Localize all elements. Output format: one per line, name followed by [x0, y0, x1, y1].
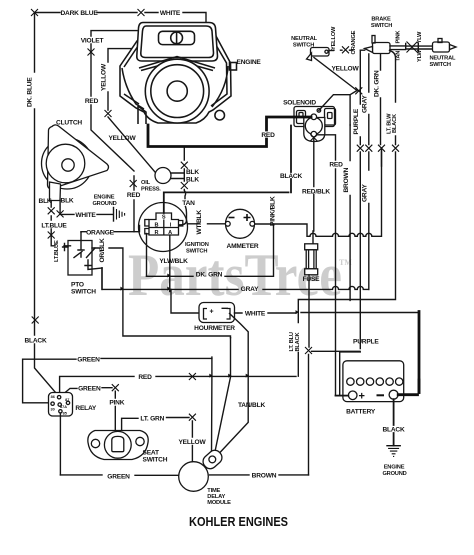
wire hourmeter diag to tan/blk column	[215, 314, 248, 458]
svg-text:RED: RED	[329, 162, 343, 169]
engine blower circle outer	[145, 59, 209, 123]
svg-text:SWITCH: SWITCH	[71, 289, 96, 296]
wire solenoid bottom to red vertical	[317, 135, 336, 396]
wire cross link fuse-red at 351.5	[312, 350, 361, 352]
node X solenoid bottom	[310, 134, 317, 141]
node X red diag	[130, 180, 137, 187]
node X yellow diag	[355, 87, 362, 94]
svg-text:GRAY: GRAY	[362, 184, 369, 202]
svg-text:ENGINE: ENGINE	[384, 464, 405, 470]
svg-text:TIME: TIME	[207, 488, 220, 494]
engine fuel tank outer	[137, 23, 218, 62]
svg-text:GREEN: GREEN	[107, 473, 130, 480]
svg-text:YELLOW: YELLOW	[108, 135, 136, 142]
svg-text:SEAT: SEAT	[143, 450, 159, 457]
svg-text:LT.BLUE: LT.BLUE	[41, 223, 67, 230]
svg-text:WHITE: WHITE	[245, 311, 266, 318]
wire neutral switch to solenoid and brown (yellow diag)	[314, 58, 357, 126]
svg-text:BROWN: BROWN	[252, 473, 277, 480]
engine left wing	[122, 68, 144, 109]
engine blower circle mid	[151, 65, 204, 118]
svg-text:PINK: PINK	[109, 400, 124, 407]
wire fuse bottom down to brown bus	[308, 275, 311, 475]
engine body outer	[120, 35, 231, 123]
ammeter	[225, 209, 254, 238]
engine ground symbol (right)	[386, 446, 401, 457]
wire A down continues (to gray bus)	[169, 276, 171, 291]
svg-text:RED: RED	[127, 192, 141, 199]
node X tan lower	[181, 182, 188, 189]
svg-text:BATTERY: BATTERY	[346, 409, 376, 416]
wire pto bottom to gray bus	[101, 268, 103, 289]
svg-text:KOHLER ENGINES: KOHLER ENGINES	[189, 514, 288, 529]
seat switch	[88, 431, 148, 460]
relay	[49, 393, 73, 417]
wire green bus (upper)	[23, 358, 212, 402]
svg-text:ENGINE: ENGINE	[94, 195, 115, 201]
neutral switch left	[307, 48, 334, 61]
wire brown vertical	[349, 125, 351, 300]
svg-text:AMMETER: AMMETER	[227, 243, 259, 250]
node X lt grn / yellow	[189, 414, 196, 421]
svg-text:SWITCH: SWITCH	[186, 249, 207, 255]
wire pink/blk + bus to brake switch (dk grn)	[255, 148, 382, 236]
svg-text:SWITCH: SWITCH	[430, 62, 451, 68]
svg-text:SWITCH: SWITCH	[143, 457, 168, 464]
ignition key block	[149, 213, 179, 235]
svg-text:85: 85	[63, 412, 67, 416]
connector pink/tan to ylw/ylw	[406, 42, 433, 53]
svg-text:RED: RED	[85, 98, 99, 105]
junction white/ltblu leg	[296, 310, 299, 314]
node X fuse line	[305, 347, 312, 354]
svg-text:PINK/BLK: PINK/BLK	[270, 196, 277, 226]
engine blower hub	[167, 81, 187, 101]
svg-text:GROUND: GROUND	[382, 471, 406, 477]
engine small nub circle	[215, 110, 225, 120]
engine ground symbol (left, sideways)	[114, 208, 125, 222]
wire dk grn (to right)	[147, 224, 274, 276]
svg-text:RED: RED	[261, 132, 275, 139]
svg-text:ENGINE: ENGINE	[237, 59, 262, 66]
svg-text:PURPLE: PURPLE	[353, 338, 379, 345]
svg-text:+: +	[359, 391, 365, 403]
svg-text:BRAKE: BRAKE	[371, 17, 391, 23]
battery	[343, 361, 404, 403]
junction marks red wire	[209, 374, 212, 378]
svg-text:DK. GRN: DK. GRN	[373, 70, 380, 97]
svg-text:87: 87	[65, 398, 69, 402]
svg-text:DK. BLUE: DK. BLUE	[27, 77, 34, 107]
fuse	[305, 244, 318, 275]
svg-text:IGNITION: IGNITION	[185, 242, 209, 248]
svg-text:86: 86	[51, 395, 55, 399]
engine fuel tank inner	[141, 26, 214, 58]
junction mark A/dkgrn	[167, 274, 170, 278]
svg-text:FUSE: FUSE	[303, 276, 321, 283]
svg-text:DK. GRN: DK. GRN	[196, 272, 223, 279]
svg-text:GREEN: GREEN	[78, 385, 101, 392]
wire green 2 (relay to pink)	[61, 388, 112, 396]
junction marks gray bus	[120, 287, 123, 291]
node X blk left	[48, 207, 55, 214]
svg-text:WHITE: WHITE	[75, 212, 96, 219]
wire red/blk solenoid to fuse	[312, 137, 315, 244]
node X red wire	[189, 373, 196, 380]
svg-text:LT. BLU: LT. BLU	[289, 332, 295, 351]
svg-text:CLUTCH: CLUTCH	[56, 120, 82, 127]
engine fuel cap plate	[159, 31, 195, 44]
svg-text:LT.BLUE: LT.BLUE	[54, 240, 60, 262]
engine body inner lines	[124, 40, 227, 106]
svg-text:LT. GRN: LT. GRN	[140, 416, 164, 423]
ignition switch circle	[139, 203, 188, 252]
time delay module	[179, 448, 225, 492]
node X yellow	[105, 110, 112, 117]
clutch face circle	[46, 144, 85, 183]
svg-text:DARK BLUE: DARK BLUE	[60, 10, 98, 17]
svg-text:GREEN: GREEN	[77, 356, 100, 363]
wire brown (time delay to fuse leg)	[210, 474, 309, 476]
svg-text:BROWN: BROWN	[343, 167, 350, 192]
engine fuel cap circle	[171, 32, 183, 44]
svg-text:PURPLE: PURPLE	[353, 108, 360, 134]
wire pink down to seat switch	[114, 391, 116, 436]
svg-text:PRESS.: PRESS.	[141, 187, 161, 193]
svg-text:BLACK: BLACK	[392, 113, 398, 133]
wire orange (PTO to ignition B)	[81, 226, 140, 233]
clutch plate triangle	[48, 125, 109, 189]
wire lt grn to seat switch	[122, 418, 189, 437]
svg-text:YELLOW: YELLOW	[178, 439, 206, 446]
svg-text:TAN/BLK: TAN/BLK	[238, 402, 265, 409]
wire tan/blk middle column	[214, 338, 231, 457]
svg-text:R: R	[154, 230, 158, 236]
wire white (hourmeter to battery minus leg)	[235, 312, 418, 315]
svg-text:+: +	[210, 309, 214, 316]
svg-text:S: S	[162, 215, 166, 221]
svg-text:YELLOW: YELLOW	[331, 66, 359, 73]
wire yellow down to time delay	[191, 421, 193, 462]
oil pressure switch	[155, 168, 171, 184]
node X left bus	[32, 317, 39, 324]
clutch pulley circle	[42, 138, 93, 189]
svg-text:B: B	[154, 222, 158, 228]
wire battery minus to ground	[393, 399, 395, 445]
svg-text:87A: 87A	[60, 405, 67, 409]
clutch connector block	[50, 182, 61, 201]
wire gray bus	[102, 268, 369, 290]
svg-text:RED/BLK: RED/BLK	[302, 189, 330, 196]
wire tan vertical (ignition I to thick wire)	[179, 148, 187, 225]
wire wt/blk (ignition to ammeter)	[188, 223, 226, 225]
clutch hub circle	[62, 159, 74, 171]
svg-text:BLACK: BLACK	[280, 173, 303, 180]
wire pto right to tan/blk column	[92, 248, 231, 338]
node X lt blu	[392, 145, 399, 152]
wire clutch blk left	[51, 201, 70, 246]
node X top-left corner	[31, 9, 38, 16]
wire dark blue / white (top)	[35, 13, 207, 23]
wire red (relay to right leg)	[60, 376, 296, 392]
node X tan upper	[181, 162, 188, 169]
svg-text:BLACK: BLACK	[382, 427, 405, 434]
wire gray vertical	[368, 54, 370, 289]
svg-text:WT/BLK: WT/BLK	[196, 210, 203, 235]
node X yellow/orange	[342, 46, 349, 53]
hourmeter	[199, 303, 235, 323]
node X blk right	[57, 210, 64, 217]
engine right wing	[212, 66, 228, 107]
wire dk blue vertical (left bus)	[35, 13, 60, 397]
node X purple	[357, 145, 364, 152]
node X violet	[88, 49, 95, 56]
svg-text:YLW: YLW	[417, 49, 423, 62]
engine lower-left connector	[138, 106, 146, 124]
wire lt blu/black vertical (brake sw to right leg)	[298, 51, 395, 377]
svg-text:BLK: BLK	[39, 198, 52, 205]
svg-text:RED: RED	[138, 374, 152, 381]
wire green bottom (relay to time delay)	[60, 474, 179, 476]
svg-text:SWITCH: SWITCH	[293, 43, 314, 49]
svg-text:BLK: BLK	[61, 198, 74, 205]
svg-text:OIL: OIL	[141, 180, 151, 186]
brake switch	[365, 36, 406, 54]
wire green-left column down to module tab	[211, 357, 213, 456]
engine right tab	[230, 63, 237, 71]
svg-text:ORANGE: ORANGE	[351, 30, 357, 54]
svg-text:TAN: TAN	[182, 200, 195, 207]
wire clutch blk right	[60, 201, 112, 215]
wire yellow from engine	[108, 49, 155, 172]
engine assembly	[120, 23, 237, 125]
svg-text:BLK: BLK	[186, 169, 199, 176]
svg-text:ORANGE: ORANGE	[86, 229, 115, 236]
node X dk grn	[378, 145, 385, 152]
svg-text:VIOLET: VIOLET	[81, 38, 104, 45]
wire oil press blk stubs	[171, 173, 184, 179]
wire ignition R down	[146, 234, 148, 277]
svg-text:A: A	[168, 230, 172, 236]
svg-text:RELAY: RELAY	[75, 405, 97, 412]
svg-text:NEUTRAL: NEUTRAL	[430, 56, 456, 62]
svg-text:DELAY: DELAY	[207, 494, 225, 500]
svg-text:YELLOW: YELLOW	[331, 26, 337, 50]
svg-text:YLW/BLK: YLW/BLK	[159, 258, 188, 265]
svg-text:PINK: PINK	[395, 30, 401, 44]
svg-text:YELLOW: YELLOW	[101, 63, 108, 91]
wire yellow/orange horizontal (to brake switch)	[334, 49, 365, 51]
svg-text:SOLENOID: SOLENOID	[283, 100, 316, 107]
wire relay 85 down to green bottom	[59, 413, 61, 475]
svg-text:YLW: YLW	[417, 31, 423, 44]
wire violet/red from top	[91, 31, 137, 232]
node X gray	[365, 145, 372, 152]
svg-text:NEUTRAL: NEUTRAL	[291, 36, 317, 42]
neutral switch right	[433, 39, 457, 53]
wire thick engine to solenoid	[148, 117, 311, 147]
svg-text:BLACK: BLACK	[24, 338, 47, 345]
svg-text:30: 30	[50, 408, 54, 412]
wire ignition S to solenoid (black)	[164, 126, 291, 214]
wire hourmeter left leg	[171, 289, 199, 313]
wire battery minus to right leg	[398, 380, 419, 395]
node X lt blue	[48, 232, 55, 239]
solenoid assembly	[294, 107, 336, 142]
wire dk grn vertical	[381, 54, 382, 166]
engine mid ridge	[139, 57, 215, 69]
svg-text:SWITCH: SWITCH	[371, 23, 392, 29]
svg-text:GRAY: GRAY	[241, 286, 259, 293]
svg-text:BLACK: BLACK	[295, 332, 301, 352]
svg-text:GROUND: GROUND	[92, 201, 116, 207]
pto switch box	[63, 232, 102, 275]
svg-text:MODULE: MODULE	[207, 500, 231, 506]
svg-text:WHITE: WHITE	[160, 10, 181, 17]
svg-text:PTO: PTO	[71, 282, 84, 289]
watermark PartsTree	[128, 242, 352, 308]
node X dark blue/white	[138, 9, 145, 16]
wire ignition A down	[169, 236, 171, 291]
svg-text:OR/BLK: OR/BLK	[99, 238, 106, 263]
clutch assembly	[42, 125, 109, 201]
wire purple vertical	[340, 50, 361, 395]
node X green/pink	[112, 384, 119, 391]
svg-text:GRAY: GRAY	[362, 95, 369, 113]
wire battery plus	[336, 395, 349, 397]
svg-text:HOURMETER: HOURMETER	[194, 325, 235, 332]
